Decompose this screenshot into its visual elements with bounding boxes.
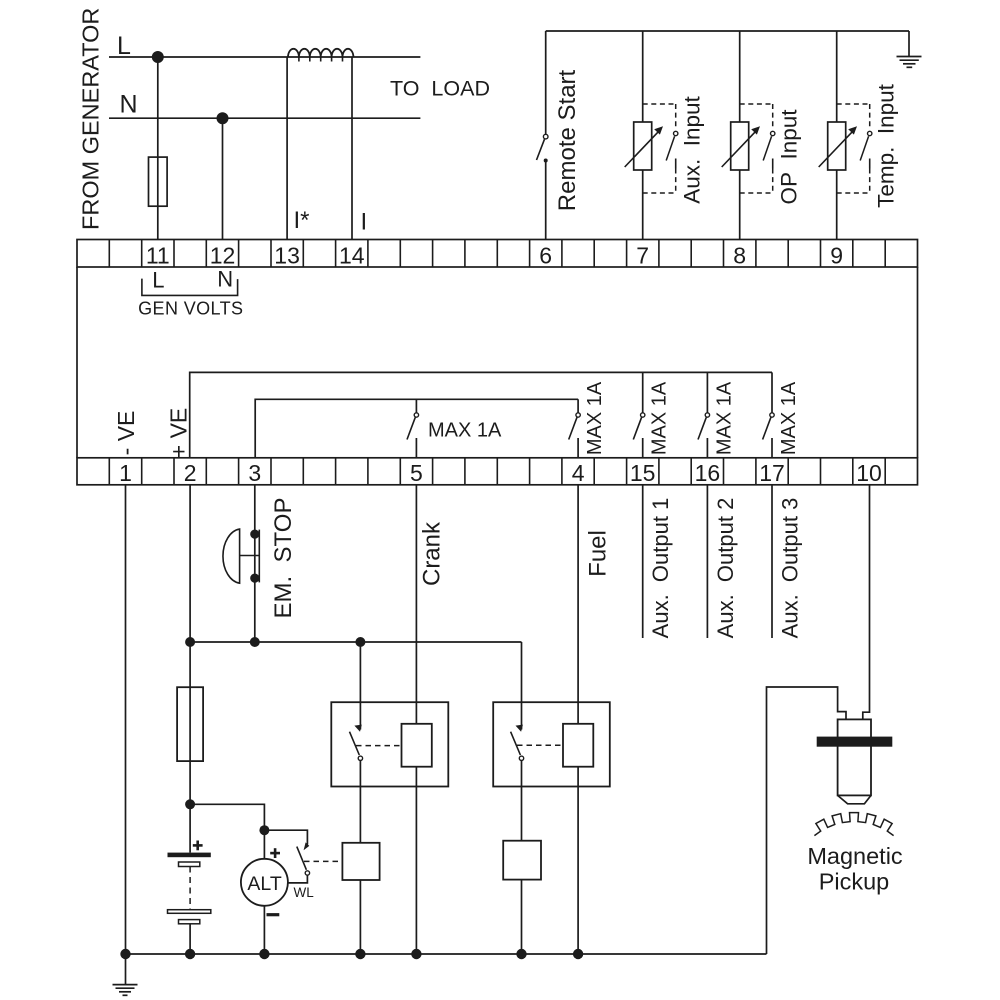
svg-text:12: 12: [210, 242, 236, 268]
wire bottom bus: [126, 953, 767, 955]
wire dashed WL link: [304, 860, 342, 862]
svg-text:4: 4: [572, 460, 585, 486]
node junction bottom bus wl: [355, 949, 365, 959]
node junction bottom bus coil2: [573, 949, 583, 959]
label FROM GENERATOR: [77, 8, 103, 230]
node junction em-stop/bus3: [250, 637, 260, 647]
label ALT: [247, 873, 281, 895]
relay K2 coil: [563, 724, 593, 767]
label Aux. Output 2: [713, 498, 738, 639]
label -VE: [113, 411, 139, 456]
svg-text:L: L: [117, 32, 131, 60]
switch remote start: [537, 31, 549, 240]
controller box outline: [77, 267, 918, 458]
svg-text:L: L: [152, 267, 164, 292]
svg-text:14: 14: [339, 242, 365, 268]
svg-text:Temp. Input: Temp. Input: [874, 83, 899, 208]
label Temp. Input: [874, 83, 899, 208]
svg-text:5: 5: [410, 460, 423, 486]
switch output terminal 5 (crank, MAX 1A): [407, 399, 419, 458]
variable resistor OP input (terminal 8): [722, 31, 775, 240]
variable resistor temp input (terminal 9): [819, 31, 872, 240]
svg-text:15: 15: [630, 460, 656, 486]
label Magnetic Pickup: [807, 843, 903, 895]
node junction bottom bus solenoid: [516, 949, 526, 959]
wire crank label (terminal 5 down): [415, 485, 417, 724]
relay WL coil box: [342, 843, 379, 880]
switch output terminal 4 (fuel, MAX 1A): [569, 399, 581, 458]
wire bus4 to alternator: [190, 804, 264, 830]
switch fuel relay contact: [511, 642, 524, 841]
label alternator +: [270, 848, 280, 858]
variable resistor aux input (terminal 7): [625, 31, 678, 240]
node junction bottom bus coil1: [411, 949, 421, 959]
label Remote Start: [554, 69, 581, 211]
wire terminal 10 to pickup right pin: [863, 485, 870, 720]
wire terminal 2 down: [189, 485, 191, 642]
label MAX 1A (aux output 2): [713, 381, 735, 455]
wire terminal 13 to CT (I*): [286, 57, 288, 240]
svg-text:N: N: [120, 91, 138, 119]
wire bus1 from terminal 2: [190, 372, 772, 457]
svg-text:MAX 1A: MAX 1A: [713, 381, 735, 455]
label I: [361, 209, 368, 236]
terminal strip row 2 (1 2 3 5 4 15 16 17 10): [77, 458, 918, 486]
solenoid box under fuel relay: [503, 841, 541, 880]
wire solenoid to bottom bus: [521, 880, 523, 954]
svg-text:11: 11: [146, 242, 170, 268]
svg-text:ALT: ALT: [247, 873, 281, 895]
label EM. STOP: [270, 498, 297, 619]
battery BT1: [168, 853, 211, 954]
bracket gen volts L N: [142, 279, 238, 296]
svg-text:MAX 1A: MAX 1A: [649, 381, 671, 455]
wire aux output 2 stub: [706, 485, 708, 638]
svg-text:8: 8: [733, 242, 746, 268]
fuse F2 battery: [177, 687, 203, 761]
label Aux. Input: [680, 95, 705, 203]
wire bus2 from terminal 3: [255, 399, 578, 458]
wire dashed crank relay link: [356, 745, 402, 747]
svg-text:16: 16: [695, 460, 721, 486]
label GEN VOLTS: [138, 299, 243, 319]
node junction alternator top: [259, 825, 269, 835]
wire terminal 12 to N line: [222, 118, 224, 239]
svg-text:TO LOAD: TO LOAD: [390, 77, 490, 101]
svg-text:Crank: Crank: [419, 521, 446, 586]
push button EM STOP: [223, 529, 259, 583]
wire terminal 14 to CT (I): [351, 57, 353, 240]
label OP Input: [777, 109, 802, 205]
svg-text:MAX 1A: MAX 1A: [584, 381, 606, 455]
label L (gen volts): [152, 267, 164, 292]
label N (gen volts): [217, 267, 233, 292]
wire bus3 horizontal: [190, 641, 521, 643]
wire L line from generator: [109, 56, 420, 58]
label WL: [294, 885, 315, 900]
svg-text:Magnetic: Magnetic: [807, 843, 903, 869]
wire fuel (terminal 4 down): [577, 485, 579, 724]
wire bottom bus to pickup left pin: [767, 687, 847, 954]
node junction bottom bus 1: [120, 949, 130, 959]
wire top input bus: [546, 30, 909, 32]
svg-text:GEN VOLTS: GEN VOLTS: [138, 299, 243, 319]
wire fuse to battery: [189, 642, 191, 853]
switch WL warning light: [264, 830, 309, 883]
wire N line from generator: [109, 117, 420, 119]
node junction crank-relay/bus3: [355, 637, 365, 647]
label battery +: [193, 841, 203, 851]
svg-text:Remote Start: Remote Start: [554, 69, 581, 211]
svg-text:WL: WL: [294, 885, 315, 900]
sensor magnetic pickup body: [838, 719, 871, 803]
label alternator -: [267, 913, 280, 916]
svg-text:2: 2: [184, 460, 197, 486]
node junction on N line: [217, 112, 229, 124]
svg-text:Aux. Output 1: Aux. Output 1: [648, 498, 673, 639]
svg-text:Aux. Output 3: Aux. Output 3: [778, 498, 803, 639]
wire terminal 1 to bottom bus: [125, 485, 127, 954]
svg-text:- VE: - VE: [113, 411, 139, 456]
svg-text:OP Input: OP Input: [777, 109, 802, 205]
wire coil2 to bottom bus: [577, 767, 579, 954]
label MAX 1A (aux output 1): [649, 381, 671, 455]
svg-text:FROM GENERATOR: FROM GENERATOR: [77, 8, 103, 230]
svg-text:Aux. Output 2: Aux. Output 2: [713, 498, 738, 639]
label L: [117, 32, 131, 60]
terminal strip row 1 (11 12 13 14 6 7 8 9): [77, 240, 918, 269]
wire terminal 3 down to EM stop: [254, 485, 256, 642]
label Fuel: [585, 530, 612, 577]
node junction bottom bus battery: [185, 949, 195, 959]
svg-text:13: 13: [274, 242, 300, 268]
label N: [120, 91, 138, 119]
switch output terminal 15 (MAX 1A): [633, 372, 645, 457]
label MAX 1A (aux output 3): [778, 381, 800, 455]
svg-text:MAX 1A: MAX 1A: [778, 381, 800, 455]
svg-text:3: 3: [248, 460, 261, 486]
svg-text:MAX 1A: MAX 1A: [428, 420, 502, 442]
label MAX 1A (crank): [428, 420, 502, 442]
svg-text:I: I: [361, 209, 368, 236]
gear tooth wheel under pickup: [814, 813, 893, 836]
label Aux. Output 1: [648, 498, 673, 639]
wire aux output 1 stub: [642, 485, 644, 638]
transformer CT coil: [288, 49, 353, 62]
wire coil1 to bottom bus: [415, 767, 417, 954]
node junction battery top: [185, 799, 195, 809]
svg-text:+ VE: + VE: [165, 408, 191, 459]
label +VE: [165, 408, 191, 459]
svg-text:17: 17: [759, 460, 785, 486]
label TO LOAD: [390, 77, 490, 101]
svg-text:Aux. Input: Aux. Input: [680, 95, 705, 203]
wire aux output 3 stub: [771, 485, 773, 638]
wire terminal 11 to L line: [157, 57, 159, 240]
relay K1 crank box: [331, 702, 448, 786]
svg-text:Fuel: Fuel: [585, 530, 612, 577]
ground top right: [897, 31, 922, 67]
svg-text:Pickup: Pickup: [819, 869, 890, 895]
alternator ALT: [241, 830, 288, 954]
svg-text:10: 10: [856, 460, 882, 486]
wire WL box to bottom bus: [359, 880, 361, 954]
svg-text:9: 9: [830, 242, 843, 268]
label Crank: [419, 521, 446, 586]
label Aux. Output 3: [778, 498, 803, 639]
svg-text:1: 1: [119, 460, 132, 486]
label I*: [294, 207, 310, 234]
node junction terminal2/bus3: [185, 637, 195, 647]
switch crank relay contact: [350, 642, 363, 843]
svg-text:N: N: [217, 267, 233, 292]
node junction on L line: [152, 51, 164, 63]
svg-text:EM. STOP: EM. STOP: [270, 498, 297, 619]
sensor pickup mounting flange bar: [817, 737, 893, 747]
switch output terminal 17 (MAX 1A): [763, 372, 775, 457]
switch output terminal 16 (MAX 1A): [698, 372, 710, 457]
wire dashed fuel relay link: [517, 744, 563, 746]
relay K2 fuel box: [493, 702, 610, 786]
relay K1 coil: [402, 724, 432, 767]
node junction bottom bus alternator: [259, 949, 269, 959]
svg-text:7: 7: [636, 242, 649, 268]
svg-text:6: 6: [539, 242, 552, 268]
fuse F1 gen volts: [149, 157, 168, 206]
svg-text:I*: I*: [294, 207, 310, 234]
ground bottom left: [113, 954, 138, 995]
label MAX 1A (fuel): [584, 381, 606, 455]
